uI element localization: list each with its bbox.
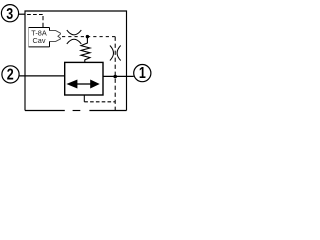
svg-text:Cav: Cav <box>33 36 46 45</box>
svg-text:1: 1 <box>139 64 146 82</box>
svg-text:2: 2 <box>7 66 14 84</box>
svg-text:3: 3 <box>6 6 13 24</box>
